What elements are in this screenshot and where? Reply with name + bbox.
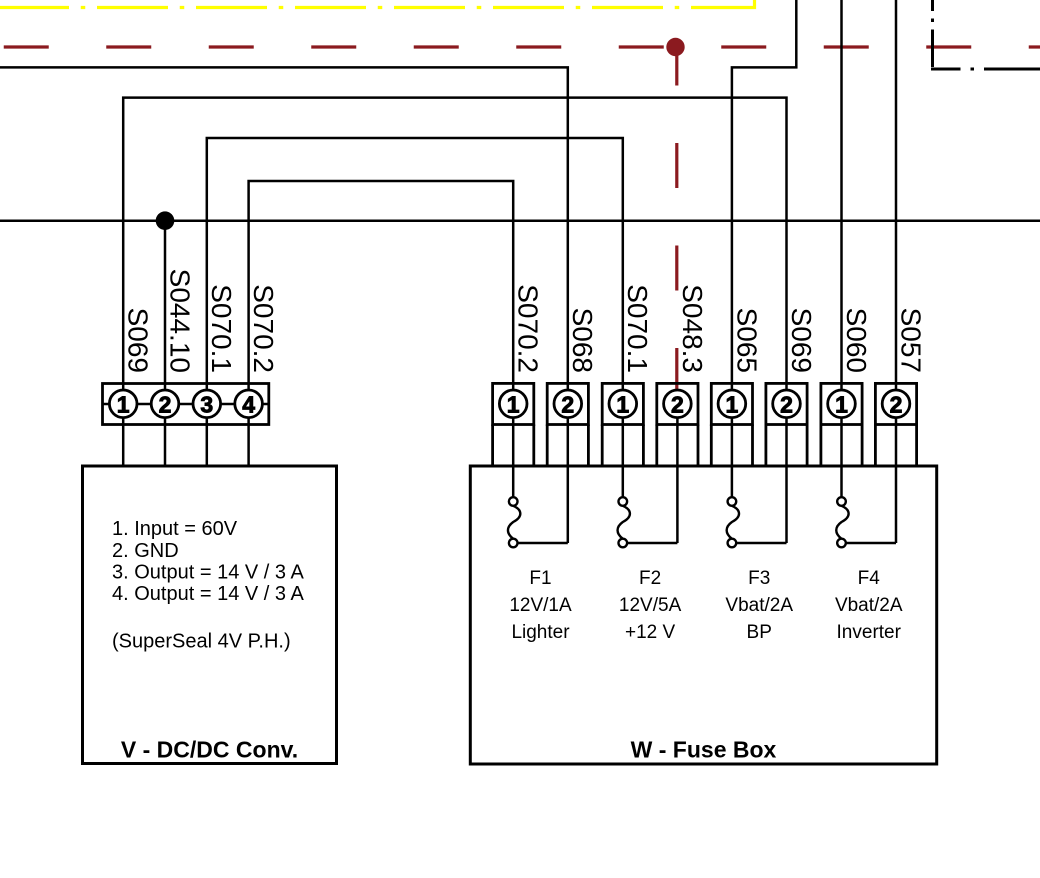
svg-text:S069: S069 — [123, 308, 154, 373]
svg-text:F3: F3 — [748, 568, 770, 589]
svg-text:3. Output = 14 V / 3 A: 3. Output = 14 V / 3 A — [112, 562, 304, 584]
svg-text:S070.2: S070.2 — [513, 284, 544, 373]
svg-text:1: 1 — [726, 392, 739, 418]
svg-text:F1: F1 — [529, 568, 551, 589]
svg-text:Lighter: Lighter — [511, 622, 570, 643]
svg-text:S065: S065 — [731, 308, 762, 373]
svg-text:S070.2: S070.2 — [248, 284, 279, 373]
svg-text:S070.1: S070.1 — [206, 284, 237, 373]
svg-text:1: 1 — [835, 392, 848, 418]
svg-text:4: 4 — [242, 392, 255, 418]
svg-text:W - Fuse Box: W - Fuse Box — [631, 736, 777, 762]
svg-text:4. Output = 14 V / 3 A: 4. Output = 14 V / 3 A — [112, 583, 304, 605]
svg-text:1: 1 — [117, 392, 130, 418]
svg-text:S044.10: S044.10 — [164, 269, 195, 373]
svg-text:1: 1 — [507, 392, 520, 418]
svg-text:+12 V: +12 V — [625, 622, 676, 643]
svg-text:V - DC/DC Conv.: V - DC/DC Conv. — [121, 736, 298, 762]
svg-text:2: 2 — [780, 392, 793, 418]
svg-text:S070.1: S070.1 — [622, 284, 653, 373]
svg-text:S057: S057 — [895, 308, 926, 373]
svg-text:3: 3 — [200, 392, 213, 418]
svg-text:Vbat/2A: Vbat/2A — [835, 595, 903, 616]
svg-text:(SuperSeal 4V P.H.): (SuperSeal 4V P.H.) — [112, 631, 291, 653]
svg-text:1: 1 — [616, 392, 629, 418]
svg-text:S069: S069 — [786, 308, 817, 373]
svg-text:12V/1A: 12V/1A — [509, 595, 572, 616]
svg-text:1. Input = 60V: 1. Input = 60V — [112, 518, 238, 540]
svg-text:S048.3: S048.3 — [677, 284, 708, 373]
svg-text:S060: S060 — [841, 308, 872, 373]
svg-text:F4: F4 — [858, 568, 881, 589]
svg-text:Inverter: Inverter — [837, 622, 902, 643]
svg-text:2. GND: 2. GND — [112, 540, 179, 562]
svg-text:12V/5A: 12V/5A — [619, 595, 682, 616]
svg-text:F2: F2 — [639, 568, 661, 589]
svg-text:BP: BP — [747, 622, 772, 643]
svg-text:Vbat/2A: Vbat/2A — [725, 595, 793, 616]
svg-text:2: 2 — [159, 392, 172, 418]
svg-text:S068: S068 — [567, 308, 598, 373]
svg-text:2: 2 — [561, 392, 574, 418]
svg-text:2: 2 — [671, 392, 684, 418]
svg-text:2: 2 — [890, 392, 903, 418]
